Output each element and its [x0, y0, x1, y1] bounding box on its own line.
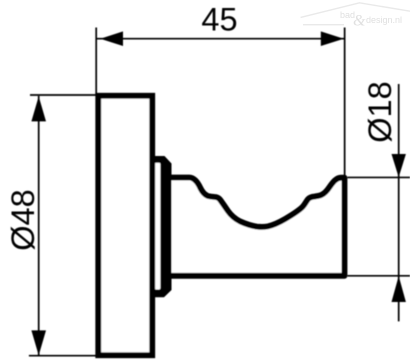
dimension Ø48: extension line top [30, 94, 97, 96]
dimension Ø18: bottom arrowhead (pointing up) [392, 276, 406, 302]
dimension Ø18: dimension line [398, 84, 400, 321]
dimension Ø18: extension line top [348, 176, 410, 178]
watermark text bad&design.nl [340, 10, 402, 30]
dimension Ø18: top arrowhead (pointing down) [392, 154, 406, 177]
svg-text:design.nl: design.nl [366, 15, 402, 25]
dimension 45: dimension line [96, 38, 344, 40]
hook arm (Ø18 body with decorative profile) [165, 178, 345, 276]
dimension Ø48: bottom arrowhead [31, 330, 46, 355]
mounting collar [155, 156, 172, 297]
dimension Ø18: extension line bottom [348, 275, 410, 277]
watermark house roof [301, 3, 410, 25]
svg-text:45: 45 [201, 2, 237, 38]
svg-text:&: & [353, 13, 366, 30]
dimension 45: left arrowhead [100, 31, 123, 46]
dimension 45: extension line left [95, 28, 97, 95]
svg-text:Ø48: Ø48 [5, 189, 41, 250]
dimension Ø48: top arrowhead [31, 96, 46, 121]
dimension Ø48: dimension line [38, 96, 40, 356]
wall plate (Ø48 rosette, side view) [98, 96, 152, 356]
svg-text:Ø18: Ø18 [362, 81, 398, 142]
dimension 45: right arrowhead [321, 31, 344, 46]
dimension 45: extension line right [344, 28, 346, 177]
dimension Ø48: extension line bottom [29, 355, 97, 357]
